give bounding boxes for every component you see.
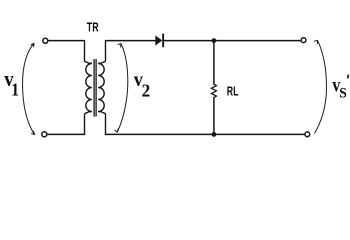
arc v2 <box>117 44 128 133</box>
arrow v1 bottom <box>31 131 35 135</box>
wire diode to right terminal <box>164 40 301 42</box>
arc vS <box>315 40 327 133</box>
wire primary top <box>48 40 84 42</box>
svg-text:TR: TR <box>87 21 99 35</box>
junction node top <box>212 38 217 43</box>
junction node bottom <box>212 132 217 137</box>
arc v1 <box>23 43 35 135</box>
resistor RL zigzag <box>211 84 216 98</box>
terminal top-right <box>301 38 306 43</box>
tick mark right edge <box>347 74 349 78</box>
transformer TR secondary winding <box>98 41 105 135</box>
svg-text:2: 2 <box>142 80 151 101</box>
wire secondary top (to diode) <box>106 40 156 42</box>
transformer core <box>94 60 96 117</box>
terminal bottom-right <box>305 132 310 137</box>
wire resistor branch bottom <box>213 98 215 135</box>
arrow v1 top <box>31 43 34 47</box>
svg-text:RL: RL <box>227 85 239 99</box>
diode D triangle <box>155 35 162 45</box>
transformer TR primary winding <box>85 41 92 135</box>
diode D cathode bar <box>162 34 164 48</box>
terminal bottom-left <box>42 132 47 137</box>
wire secondary bottom <box>106 133 305 135</box>
wire resistor branch top <box>213 41 215 84</box>
arrow vS top <box>314 40 318 44</box>
terminal top-left <box>43 38 48 43</box>
svg-text:S: S <box>339 86 347 101</box>
arrow v2 bottom <box>115 129 119 133</box>
wire primary bottom <box>47 133 84 135</box>
arrow v2 top <box>118 44 121 48</box>
svg-text:1: 1 <box>11 79 19 99</box>
